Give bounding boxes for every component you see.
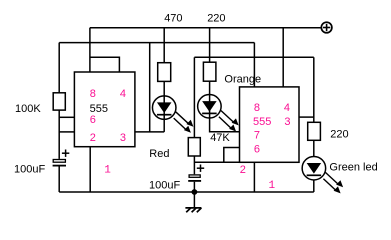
wire IC1 pin2 stub	[59, 131, 74, 133]
wire bottom ground rail	[59, 191, 314, 193]
wire IC2 pin1	[253, 162, 255, 192]
op-amp U1 555 IC1 body	[74, 72, 134, 147]
wire green LED to ground rail	[313, 180, 315, 192]
svg-text:3: 3	[120, 132, 126, 144]
svg-text:100uF: 100uF	[149, 180, 180, 192]
svg-text:6: 6	[254, 143, 260, 155]
svg-text:1: 1	[104, 164, 111, 176]
wire top rail to 220 orange	[209, 28, 211, 63]
resistor 470	[158, 63, 171, 82]
svg-text:47K: 47K	[210, 132, 230, 144]
wire cap2 to ground rail	[193, 182, 195, 192]
wire IC1 pin3 output	[135, 131, 164, 133]
wire rail2	[59, 42, 254, 44]
wire 220 to green LED	[313, 140, 315, 156]
wire top VCC rail	[90, 27, 321, 29]
svg-text:2: 2	[90, 132, 96, 144]
svg-text:4: 4	[120, 88, 126, 100]
resistor 220 green	[308, 122, 321, 140]
wire red LED cathode	[163, 119, 165, 132]
svg-text:2: 2	[240, 164, 246, 176]
wire rail3 to 47K	[193, 57, 195, 137]
svg-text:220: 220	[207, 12, 225, 24]
resistor 220 orange	[203, 62, 216, 81]
svg-text:555: 555	[253, 116, 271, 128]
wire top rail to 470	[163, 28, 165, 63]
op-amp U1 555 labels	[90, 88, 126, 176]
wire IC1 pin8 drop with step	[89, 28, 91, 72]
svg-text:220: 220	[330, 129, 348, 141]
ground	[185, 208, 201, 212]
svg-text:Orange: Orange	[224, 74, 261, 86]
svg-text:8: 8	[90, 88, 96, 100]
resistor 47K	[188, 138, 200, 156]
wire step to IC1 pin4	[90, 57, 120, 72]
wire IC1 pin1	[89, 147, 91, 192]
wire 220 to orange LED	[209, 81, 211, 118]
wire rail3	[194, 56, 313, 58]
resistor 100K	[53, 93, 65, 110]
wire 47K bottom to cap2	[193, 156, 195, 174]
svg-text:Green led: Green led	[329, 161, 377, 173]
svg-text:1: 1	[269, 180, 276, 192]
wire rail2 to IC2 pin8	[253, 43, 255, 87]
wire IC1 pin6 stub	[59, 116, 74, 118]
node ground junction dot	[192, 189, 198, 195]
wire IC2 pin3 output	[299, 116, 314, 118]
wire 100K bottom to cap1	[58, 110, 60, 159]
svg-text:100uF: 100uF	[14, 163, 45, 175]
wire rail3 to 220 green	[313, 57, 315, 122]
LED D2 orange	[198, 95, 239, 132]
svg-text:Red: Red	[149, 148, 169, 160]
svg-text:470: 470	[164, 12, 182, 24]
wire top rail to IC2 pin4	[282, 28, 284, 87]
wire 470 to red LED	[163, 81, 165, 119]
svg-text:7: 7	[254, 130, 260, 142]
wire orange LED cathode to IC2 pin7	[210, 118, 240, 132]
svg-text:3: 3	[284, 116, 290, 128]
LED D1 red	[152, 96, 193, 133]
svg-text:100K: 100K	[15, 103, 41, 115]
op-amp U2 555 IC2 body	[240, 87, 300, 162]
op-amp U2 555 labels	[240, 102, 291, 192]
LED D3 green	[302, 156, 343, 193]
wire rail2 to 100K	[58, 43, 60, 93]
wire cap1 to ground rail	[58, 166, 60, 192]
capacitor C2 100uF	[188, 165, 204, 182]
svg-text:8: 8	[254, 102, 260, 114]
wire pins 2-6 node to IC2 bottom	[194, 161, 239, 163]
capacitor C1 100uF	[53, 150, 70, 167]
wire ground stub	[193, 192, 195, 208]
svg-text:6: 6	[90, 114, 96, 126]
svg-text:4: 4	[284, 102, 290, 114]
power positive terminal	[321, 22, 332, 33]
wire IC2 pin6 step	[224, 148, 240, 163]
wire rail2 tap to output node	[149, 43, 151, 132]
